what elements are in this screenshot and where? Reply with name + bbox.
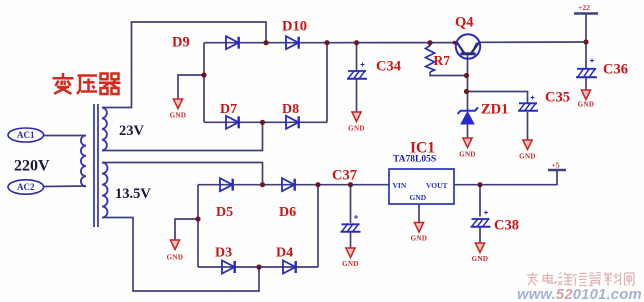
- wire: C34 bottom to ground: [356, 80, 358, 113]
- svg-text:D3: D3: [215, 246, 232, 261]
- diode D7: [226, 116, 239, 129]
- label D7: [220, 102, 237, 117]
- node: base / C35 branch junction: [464, 89, 469, 94]
- ground (bridge1 tap): [170, 99, 187, 120]
- transistor Q4: [456, 34, 480, 58]
- diode D3: [222, 261, 235, 274]
- zener diode ZD1: [458, 107, 479, 124]
- ground (C37): [342, 248, 359, 268]
- wire: main rail bridge1 output to Q4 collector: [327, 42, 456, 44]
- label D4: [276, 246, 293, 261]
- svg-text:D8: D8: [282, 102, 299, 117]
- svg-text:VOUT: VOUT: [426, 181, 448, 190]
- label transformer (Chinese): [53, 73, 121, 94]
- wire: C37 tap down: [350, 185, 352, 223]
- svg-text:D9: D9: [172, 35, 190, 51]
- terminal AC2: [8, 180, 44, 194]
- svg-text:C37: C37: [332, 168, 357, 184]
- wire: bridge2 left vertical: [197, 185, 199, 267]
- label C35: [545, 90, 570, 106]
- svg-text:D4: D4: [276, 246, 293, 261]
- svg-text:GND: GND: [170, 112, 187, 120]
- svg-text:GND: GND: [578, 101, 595, 109]
- wire: 23V top terminal to bridge1 AC input: [102, 22, 266, 108]
- label ZD1: [481, 102, 508, 118]
- capacitor C36: [576, 59, 597, 78]
- resistor R7: [426, 43, 435, 72]
- label C37: [332, 168, 357, 184]
- wire: base branch to C35: [467, 92, 528, 103]
- diode D8: [286, 116, 299, 129]
- power bar +5: [548, 169, 566, 171]
- wire: bridge2 top row: [198, 184, 318, 186]
- label 220V: [14, 158, 50, 175]
- wire: Q4 emitter rail to +22 node: [480, 41, 586, 43]
- wire: R7 bottom to base line: [430, 72, 467, 76]
- diode D10: [286, 36, 299, 49]
- wire: C36 tap down: [585, 42, 587, 68]
- node: +22 / C36 junction: [583, 39, 588, 44]
- wire: C37 bottom to ground: [350, 233, 352, 249]
- svg-text:GND: GND: [472, 255, 489, 263]
- wire: bridge1 top row: [204, 42, 327, 44]
- label Q4: [455, 15, 474, 31]
- svg-text:220V: 220V: [14, 158, 50, 175]
- wire: bridge2 bottom mid to 13.5V winding bottom: [102, 218, 259, 292]
- label 23V: [119, 123, 145, 139]
- svg-text:AC2: AC2: [17, 182, 35, 192]
- node: bridge1 bottom mid junction: [260, 120, 265, 125]
- label C34: [376, 59, 401, 75]
- svg-text:D6: D6: [279, 205, 296, 220]
- node: bridge1 output corner: [324, 40, 329, 45]
- svg-text:GND: GND: [342, 260, 359, 268]
- node: bridge1 left tap junction: [201, 72, 206, 77]
- wire: C35 bottom to ground: [527, 112, 529, 140]
- ground (ZD1): [459, 138, 476, 159]
- power bar +22: [574, 12, 598, 14]
- ground (C36): [578, 90, 595, 109]
- transformer core: [94, 104, 98, 227]
- ground (C38): [472, 243, 489, 263]
- label 13.5V: [115, 186, 151, 202]
- svg-text:13.5V: 13.5V: [115, 186, 151, 202]
- svg-text:AC1: AC1: [17, 130, 35, 140]
- wire: bridge1 right vertical: [326, 43, 328, 123]
- node: Q4 collector joint: [453, 41, 457, 45]
- node: bridge2 AC mid junction: [260, 182, 265, 187]
- capacitor C38: [471, 211, 491, 227]
- wire: ZD1 anode to ground: [467, 124, 469, 138]
- node: C38 tap: [477, 182, 482, 187]
- svg-text:R7: R7: [434, 53, 451, 68]
- wire: IC1 GND pin down: [418, 204, 420, 223]
- svg-text:www.520101.com: www.520101.com: [517, 287, 642, 302]
- transformer 13.5V secondary winding: [102, 163, 108, 218]
- label C38: [494, 218, 519, 234]
- wire: 13.5V top terminal to bridge2 AC input: [102, 163, 263, 185]
- svg-text:D5: D5: [216, 205, 233, 220]
- label D9: [172, 35, 190, 51]
- svg-text:23V: 23V: [119, 123, 145, 139]
- diode D6: [282, 178, 295, 191]
- svg-text:C38: C38: [494, 218, 519, 234]
- diode D5: [220, 178, 233, 191]
- transformer 23V secondary winding: [102, 108, 107, 151]
- svg-text:+22: +22: [578, 3, 590, 12]
- svg-text:GND: GND: [410, 193, 427, 202]
- svg-text:GND: GND: [459, 151, 476, 159]
- label IC1: [410, 140, 435, 157]
- wire: bridge2 bottom row: [198, 266, 318, 268]
- diode D9: [226, 36, 239, 49]
- label +5: [551, 160, 559, 169]
- label D5: [216, 205, 233, 220]
- svg-text:C36: C36: [603, 62, 628, 78]
- capacitor C34: [347, 63, 367, 79]
- svg-text:ZD1: ZD1: [481, 102, 508, 118]
- wire: C36 bottom to ground: [585, 78, 587, 90]
- svg-text:+5: +5: [551, 160, 559, 169]
- wire: C34 tap: [356, 43, 358, 71]
- label R7: [434, 53, 451, 68]
- label TA78L05S: [393, 155, 436, 165]
- ground (C35): [519, 140, 536, 161]
- svg-text:D7: D7: [220, 102, 237, 117]
- node: C34 tap: [354, 40, 359, 45]
- wire: bridge2 right vertical: [317, 185, 319, 267]
- ground (bridge2 tap): [167, 240, 184, 262]
- ground (IC1 pin): [411, 223, 428, 243]
- wire: Q4 base down to ZD1: [467, 55, 469, 110]
- wire: AC1 to primary top: [44, 135, 86, 137]
- node: bridge1 AC mid junction: [263, 40, 268, 45]
- svg-text:C34: C34: [376, 59, 401, 75]
- wire: IC1 VOUT rail to +5: [454, 170, 557, 185]
- wire: AC2 to primary bottom: [44, 185, 86, 188]
- svg-text:C35: C35: [545, 90, 570, 106]
- wire: bridge1 left tap to ground: [178, 75, 204, 99]
- svg-text:Q4: Q4: [455, 15, 474, 31]
- label +22: [578, 3, 590, 12]
- svg-text:VIN: VIN: [393, 181, 407, 190]
- svg-text:TA78L05S: TA78L05S: [393, 155, 436, 165]
- svg-text:GND: GND: [411, 235, 428, 243]
- label D3: [215, 246, 232, 261]
- ground (C34): [348, 112, 365, 133]
- terminal AC1: [8, 128, 44, 142]
- svg-text:GND: GND: [519, 153, 536, 161]
- svg-text:D10: D10: [282, 19, 307, 35]
- capacitor C37: [341, 215, 361, 232]
- node: bridge2 bottom mid junction: [256, 264, 261, 269]
- label D8: [282, 102, 299, 117]
- node: R7 top tap: [427, 40, 432, 45]
- watermark Chinese text: [527, 273, 634, 286]
- capacitor C35: [518, 96, 538, 111]
- node: C37 tap: [348, 182, 353, 187]
- wire: C38 tap down: [479, 185, 481, 217]
- diode D4: [283, 261, 296, 274]
- label C36: [603, 62, 628, 78]
- node: bridge2 output corner: [315, 182, 320, 187]
- wire: bridge1 bottom row: [204, 121, 327, 123]
- wire: C38 bottom to ground: [479, 228, 481, 244]
- node: bridge2 left tap junction: [195, 216, 200, 221]
- svg-text:GND: GND: [348, 125, 365, 133]
- wire: bridge2 left tap to ground: [175, 219, 198, 240]
- label D6: [279, 205, 296, 220]
- node: R7 bottom / base junction: [464, 73, 469, 78]
- wire: rail bridge2 output to IC1 VIN: [318, 184, 389, 186]
- label D10: [282, 19, 307, 35]
- IC U1 regulator box: [389, 169, 454, 204]
- wire: +22 terminal vertical: [585, 14, 587, 43]
- transformer primary winding: [81, 136, 86, 187]
- watermark www.520101.com: [517, 287, 642, 302]
- wire: bridge1 bottom mid to 23V winding bottom: [102, 122, 263, 150]
- wire: bridge1 left vertical: [203, 43, 205, 123]
- svg-text:GND: GND: [167, 254, 184, 262]
